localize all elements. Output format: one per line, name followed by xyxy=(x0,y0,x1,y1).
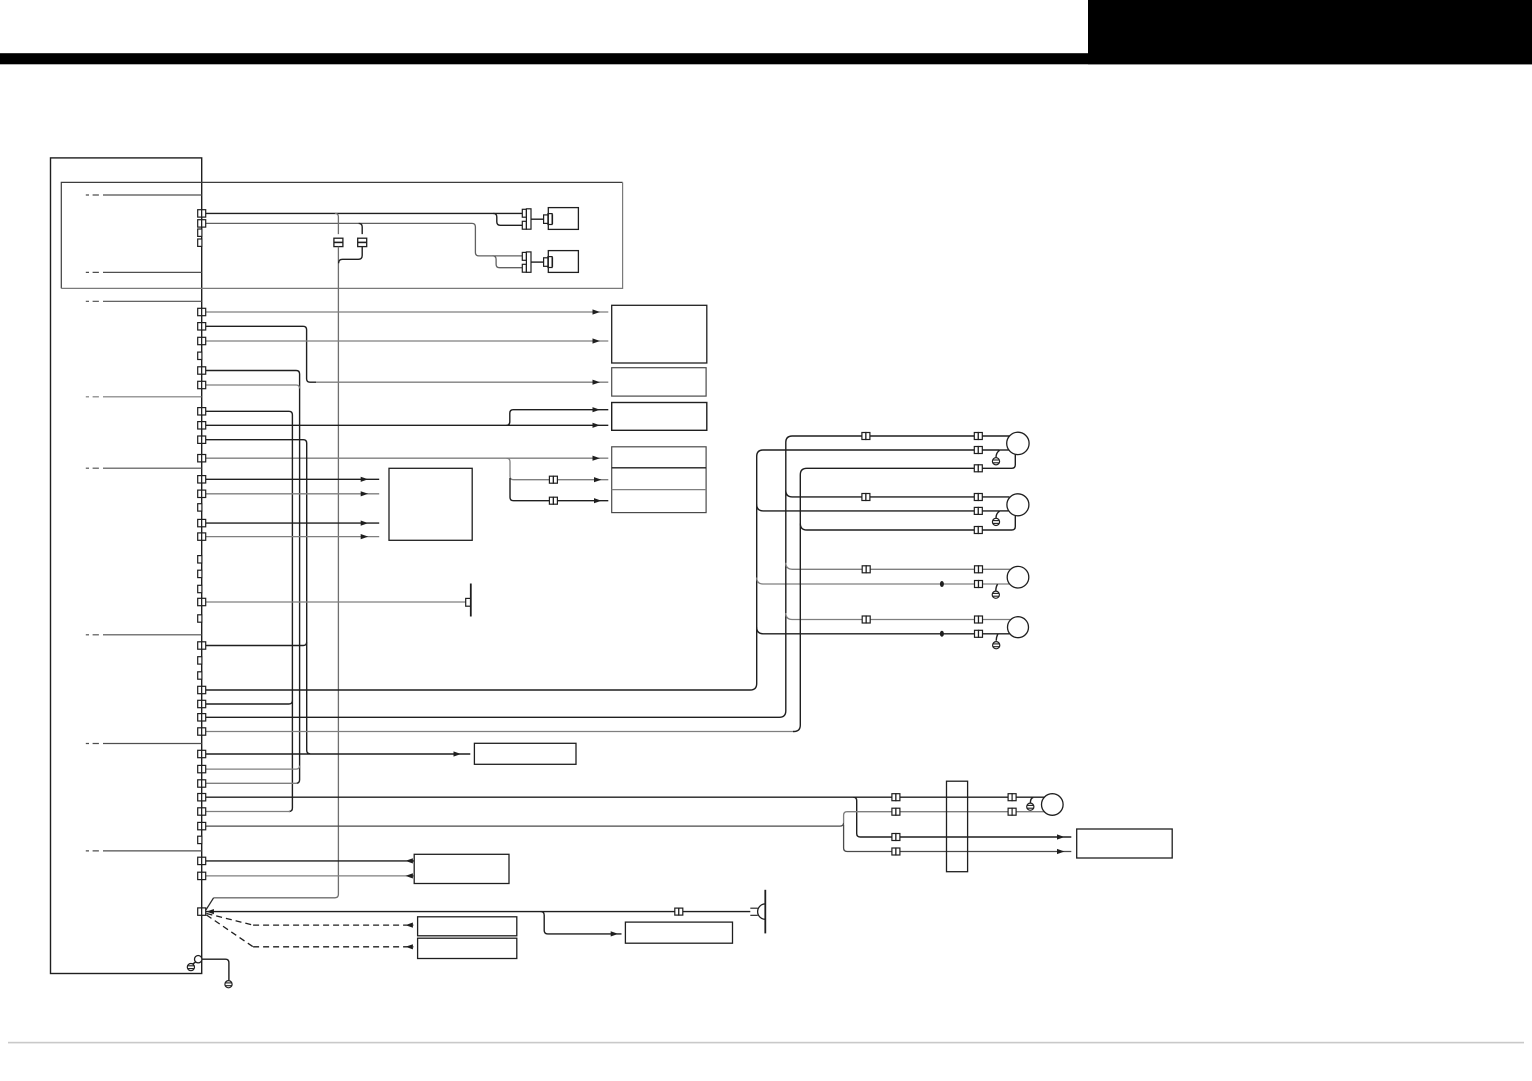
ground G7 (chassis) xyxy=(225,981,232,988)
pin single S2 (y=242.7) xyxy=(198,239,202,246)
arrow into lamp box row2 xyxy=(594,477,602,482)
wire branch up to switch box row1 xyxy=(506,410,608,426)
wire pin 523 to module xyxy=(206,522,380,524)
arrow into switch box row2 xyxy=(593,423,601,428)
arrow option wire 1 xyxy=(405,923,413,928)
wire branch of pin1 wire down to lower terminal of J1 xyxy=(493,213,522,225)
wire branch from pin2 wire through fuse F2 xyxy=(359,223,363,234)
arrow into indicator box row1 xyxy=(593,309,601,314)
pin P25 (y=797.2) xyxy=(198,794,206,801)
pin P3 (y=312.0) xyxy=(198,308,206,315)
connector pair on lamp row2 wire xyxy=(549,476,557,483)
buzzer terminals xyxy=(750,908,758,915)
wire pin 385 joining trunk VB xyxy=(206,385,300,389)
sensor box (bottom) xyxy=(548,251,578,273)
wire pin 754 to timer box xyxy=(206,753,471,755)
connector pair motor4 supply xyxy=(862,616,870,623)
connector J1 socket xyxy=(522,209,531,229)
wire sense rail riser to motor1 xyxy=(793,454,1015,731)
connector pair motor4 supply 2 xyxy=(975,616,983,623)
connector pair motor1 return xyxy=(974,447,982,454)
fuse F2 xyxy=(358,238,367,246)
pin P6 (y=370.5) xyxy=(198,367,206,374)
wire continuation to relay box arrow xyxy=(316,381,608,383)
sensor plug pin (bottom) xyxy=(544,257,553,268)
arrow toward pin 861 xyxy=(405,858,413,863)
wire diagonal drop to horn pin xyxy=(206,898,214,910)
wire pin2 feed to connector J2 xyxy=(206,223,523,256)
wire pin 341 to indicator box row2 xyxy=(206,340,609,342)
antenna terminal connector xyxy=(466,598,471,606)
pin single S1 (y=232.7) xyxy=(198,229,202,236)
control unit outline (left tall box) xyxy=(51,158,202,974)
wire ring terminal to chassis ground xyxy=(202,959,229,980)
connector pair motor3 return xyxy=(975,581,983,588)
wire pin 494 to module xyxy=(206,493,380,495)
pin P22 (y=754.0) xyxy=(198,750,206,757)
wire pin 769 joining trunk VB xyxy=(206,766,300,770)
connector pair blower supply xyxy=(892,794,900,801)
arrow into timer box xyxy=(454,751,462,756)
wire horn feed to buzzer xyxy=(206,911,751,913)
footer light rule xyxy=(8,1042,1524,1044)
connector pair motor2 return xyxy=(974,507,982,514)
wire main power drop from pin1 wire through fuse F1 xyxy=(335,213,339,234)
wire pin 826 with junction branch xyxy=(206,823,844,827)
timer box xyxy=(474,743,576,764)
connector pair blower return xyxy=(892,808,900,815)
pin single S11 (y=839.9) xyxy=(198,836,202,843)
node line group F xyxy=(86,634,202,636)
pin P26 (y=811.5) xyxy=(198,808,206,815)
wire pin 876 from sensor box A xyxy=(206,875,415,877)
wire pin 645 joining trunk VD xyxy=(206,642,307,646)
inner dashed-area sub box (top) xyxy=(61,182,622,288)
pin P17 (y=645.5) xyxy=(198,642,206,649)
ground G6 (case) xyxy=(187,964,194,971)
arrow into lamp box row1 xyxy=(593,456,601,461)
wire pin 861 from sensor box A xyxy=(206,860,415,862)
bulkhead connector (tall rect) xyxy=(947,781,968,872)
node line group G xyxy=(86,743,202,745)
arrow into lamp box row3 xyxy=(594,498,602,503)
pin P4 (y=326.3) xyxy=(198,323,206,330)
pin P21 (y=731.5) xyxy=(198,728,206,735)
arrow into security box xyxy=(611,931,619,936)
arrow into module row4 xyxy=(361,534,369,539)
pin P16 (y=602.0) xyxy=(198,598,206,605)
wire rail branch to motor3 return xyxy=(757,578,1010,585)
wire fuse F2 output jog joining main vertical xyxy=(339,247,363,264)
buzzer dome xyxy=(758,904,766,919)
wire rail branch to motor2 return xyxy=(757,504,1000,511)
sensor box (top) xyxy=(548,208,578,230)
option box 1 xyxy=(418,917,517,936)
wire pin 811 to trunk VA xyxy=(206,811,290,813)
node line group A xyxy=(86,194,202,196)
motor M3 xyxy=(1007,566,1029,588)
wire pin 602 to antenna terminal xyxy=(206,601,466,603)
pin P15 (y=536.6) xyxy=(198,533,206,540)
wire pin1 to connector J1 xyxy=(206,212,523,214)
connector pair motor3 supply 2 xyxy=(975,566,983,573)
pin P14 (y=523.1) xyxy=(198,519,206,526)
wire branch down from 458 wire xyxy=(507,458,609,480)
wire pin 731 to sense rail riser xyxy=(206,731,793,733)
controller box (bottom right) xyxy=(1077,829,1173,858)
wire pin 690 riser to motor grounds rail xyxy=(206,450,1000,690)
motor M1 xyxy=(1007,432,1029,454)
pin P18 (y=690.0) xyxy=(198,686,206,693)
ground G4 (motor4) xyxy=(993,642,1000,649)
pin single S8 (y=618.5) xyxy=(198,615,202,622)
pin P7 (y=385.0) xyxy=(198,381,206,388)
lamp box (top right stack 4) xyxy=(612,447,706,513)
connector pair controller row1 xyxy=(892,834,900,841)
indicator box (top right stack 1) xyxy=(612,305,707,363)
ground stem motor1 xyxy=(996,450,1000,457)
pin P12 (y=479.3) xyxy=(198,476,206,483)
pin P13 (y=493.8) xyxy=(198,490,206,497)
wire pin 717 riser to motor supply rail xyxy=(206,436,1010,717)
wire junction down to controller row2 xyxy=(844,825,1072,852)
pin P29 (y=875.9) xyxy=(198,872,206,879)
blower motor M5 xyxy=(1042,794,1064,816)
arrow into module row3 xyxy=(361,521,369,526)
security box xyxy=(625,922,732,943)
relay box (top right stack 2) xyxy=(612,368,706,396)
wire trunk VA pin 411 down to pin 811 xyxy=(206,411,293,811)
node line group D xyxy=(86,396,202,398)
pin P8 (y=411.3) xyxy=(198,408,206,415)
ground G5 (blower) xyxy=(1027,803,1034,810)
pin single S4 (y=507.4) xyxy=(198,504,202,511)
connector pair on lamp row3 wire xyxy=(549,497,557,504)
pin P30 (y=911.6) xyxy=(198,908,206,915)
wire motor1 return to circle xyxy=(999,449,1009,451)
ring terminal at case bottom xyxy=(195,956,202,963)
pin P5 (y=341.0) xyxy=(198,337,206,344)
pin P19 (y=704.0) xyxy=(198,700,206,707)
wire supply branch to motor2 xyxy=(786,490,1010,497)
pin single S9 (y=660.4) xyxy=(198,657,202,664)
pin P28 (y=860.9) xyxy=(198,857,206,864)
pin P11 (y=458.2) xyxy=(198,455,206,462)
pin P27 (y=826.1) xyxy=(198,822,206,829)
connector pair motor1 sense xyxy=(974,465,982,472)
arrow into module row1 xyxy=(361,477,369,482)
buzzer mounting bar xyxy=(764,890,766,934)
arrow into controller row2 xyxy=(1057,849,1065,854)
connector J2 socket xyxy=(522,252,531,272)
wire pin 326 drop via trunk to relay box xyxy=(206,326,316,382)
pin single S7 (y=589.0) xyxy=(198,585,202,592)
ground G3 (motor3) xyxy=(992,591,999,598)
ground G1 (motor1) xyxy=(992,458,999,465)
sensor plug pin (top) xyxy=(544,214,553,225)
motor M4 xyxy=(1008,617,1029,638)
connector pair motor4 return xyxy=(975,630,983,637)
wire pin 797 to blower motor xyxy=(206,796,1045,798)
ground stem blower xyxy=(1030,797,1033,803)
pin P20 (y=717.3) xyxy=(198,714,206,721)
connector pair horn wire xyxy=(675,908,683,915)
arrow into horn pin xyxy=(206,909,214,914)
connector pair motor2 supply 2 xyxy=(974,494,982,501)
wire pin 425 to switch box row2 xyxy=(206,424,609,426)
splice dot motor4 return xyxy=(940,631,944,637)
wire main power vertical down to horn pin xyxy=(214,247,339,898)
wire sense branch to motor2 xyxy=(800,516,1015,530)
wire J1 to sensor plug xyxy=(531,218,544,220)
ground stem motor2 xyxy=(996,511,1000,518)
wire supply branch to motor4 xyxy=(786,613,1011,620)
connector pair motor3 supply xyxy=(862,566,870,573)
wire rail branch to motor4 return xyxy=(757,627,1010,634)
stem to case ground xyxy=(193,962,196,964)
node line group C xyxy=(86,300,202,302)
connector pair blower supply 2 xyxy=(1008,794,1016,801)
wire junction up-branch to blower return xyxy=(844,812,1045,823)
ground stem motor3 xyxy=(996,584,998,591)
ground stem motor4 xyxy=(996,634,998,641)
motor M2 xyxy=(1007,494,1029,516)
header black title block (top right) xyxy=(1088,0,1532,64)
sensor box A (lower left) xyxy=(414,854,509,883)
wire pin 479 to module xyxy=(206,478,380,480)
wire pin 537 to module xyxy=(206,536,380,538)
wire J2 to sensor plug xyxy=(531,261,544,263)
wire pin 312 to indicator box row1 xyxy=(206,311,609,313)
arrow into module row2 xyxy=(361,491,369,496)
wire trunk VB pin 370 down to pin 783 xyxy=(206,371,300,784)
wire pin 458 to lamp box row1 xyxy=(206,457,609,459)
pin P24 (y=783.5) xyxy=(198,780,206,787)
connector pair motor1 supply xyxy=(862,433,870,440)
fuse F1 xyxy=(334,238,343,246)
pin P9 (y=425.3) xyxy=(198,422,206,429)
wire branch to lower terminal of J2 xyxy=(493,256,523,268)
connector pair motor2 supply xyxy=(862,494,870,501)
pin P2 (y=223.4) xyxy=(198,220,206,227)
arrow option wire 2 xyxy=(405,944,413,949)
arrow into switch box row1 xyxy=(593,407,601,412)
connector pair motor2 sense xyxy=(974,527,982,534)
antenna bar xyxy=(470,584,472,617)
dashed wire option 2 from horn pin xyxy=(207,915,254,947)
connector pair blower return 2 xyxy=(1008,808,1016,815)
arrow into relay box xyxy=(593,380,601,385)
pin P10 (y=439.7) xyxy=(198,436,206,443)
ground G2 (motor2) xyxy=(992,518,999,525)
pin single S6 (y=573.9) xyxy=(198,570,202,577)
node line group H xyxy=(86,850,202,852)
arrow into controller row1 xyxy=(1057,834,1065,839)
connector pair controller row2 xyxy=(892,848,900,855)
node line group B xyxy=(86,271,202,273)
wire supply branch to motor3 xyxy=(786,563,1011,570)
arrow toward pin 876 xyxy=(405,873,413,878)
pin P23 (y=769.1) xyxy=(198,765,206,772)
pin single S10 (y=675.5) xyxy=(198,672,202,679)
option box 2 xyxy=(418,938,517,958)
node line group E xyxy=(86,467,202,469)
module box (middle) xyxy=(389,468,472,540)
pin single S5 (y=559.3) xyxy=(198,556,202,563)
pin P1 (y=213.4) xyxy=(198,210,206,217)
wire pin 704 joining trunk VA xyxy=(206,701,293,705)
lamp box divider 1 xyxy=(612,467,706,469)
wire pin 783 to trunk VB xyxy=(206,782,298,784)
lamp box divider 2 xyxy=(612,489,706,491)
connector pair motor1 supply 2 xyxy=(974,433,982,440)
wire branch down from 797 to controller row1 xyxy=(853,797,1071,837)
wire trunk VD pin 440 down to relay wire xyxy=(206,440,311,754)
splice dot motor3 return xyxy=(940,581,944,587)
dashed wire option 1 from horn pin xyxy=(207,914,254,926)
pin single S3 (y=355.8) xyxy=(198,352,202,359)
arrow into indicator box row2 xyxy=(593,338,601,343)
header black rule bar xyxy=(0,53,1532,64)
wire branch down continues to lamp row3 xyxy=(510,478,608,501)
wire branch down to security box xyxy=(541,912,622,934)
wire motor2 return to circle xyxy=(999,510,1008,512)
switch box (top right stack 3) xyxy=(612,403,707,431)
